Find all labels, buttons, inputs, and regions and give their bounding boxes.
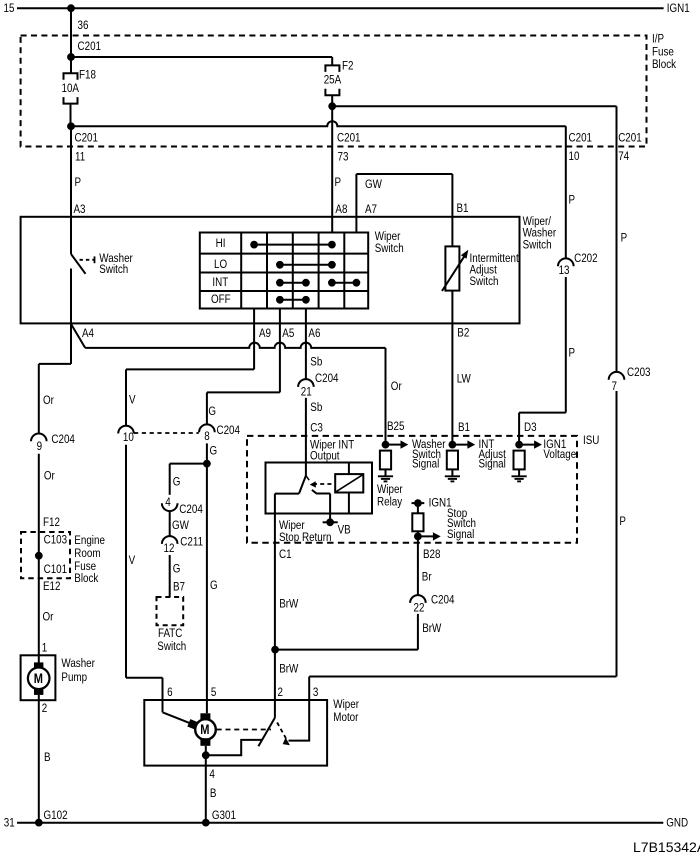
svg-text:Signal: Signal [412,458,439,471]
svg-text:C201: C201 [337,132,361,145]
wire B1 down to adjust switch [451,174,453,246]
svg-text:A8: A8 [335,203,347,216]
svg-text:73: 73 [338,151,349,164]
resistor IGN1 voltage [514,451,525,470]
svg-text:L7B15342A: L7B15342A [633,839,700,855]
svg-text:BrW: BrW [279,598,299,611]
svg-text:C3: C3 [310,422,323,435]
wire G to C204-4 [169,464,171,495]
svg-text:FATC: FATC [158,627,182,640]
svg-text:C201: C201 [77,40,101,53]
connector C204 pin 8 [199,424,215,432]
svg-text:M: M [34,671,43,686]
svg-text:Washer: Washer [61,657,95,670]
svg-text:C103: C103 [44,534,68,547]
pin3 wire to contact [289,700,310,741]
connector C204 pin 22 [410,595,426,603]
resistor washer switch signal [380,451,391,470]
svg-text:21: 21 [301,386,312,399]
svg-text:IGN1: IGN1 [667,2,690,15]
engine room fuse block boundary [21,532,70,578]
wiper relay K1 box [266,463,373,514]
wire A3 into washer switch [70,217,72,254]
svg-text:P: P [619,515,626,528]
svg-text:VB: VB [338,524,351,537]
svg-text:B2: B2 [457,327,469,340]
junction stop switch signal [414,533,422,541]
svg-text:Block: Block [652,58,677,71]
wiper/washer switch box [21,217,520,324]
svg-text:12: 12 [163,542,174,555]
svg-text:B1: B1 [457,202,469,215]
svg-text:8: 8 [204,430,209,443]
alternate lever arrowhead [283,737,290,745]
VB tick [323,521,338,523]
signal arrow stop switch [418,535,434,537]
svg-text:Relay: Relay [377,496,403,509]
svg-text:B25: B25 [387,420,405,433]
svg-text:F12: F12 [43,516,60,529]
svg-text:C203: C203 [627,366,651,379]
wire GW to C211-12 [169,511,171,536]
wire P to A8 [331,106,333,232]
wire V to C204-10 [125,369,127,425]
svg-text:C204: C204 [315,372,339,385]
svg-text:4: 4 [165,496,170,509]
svg-text:Fuse: Fuse [74,560,96,573]
connector C211 pin 12 [162,536,178,544]
wire 4 / B to G301 [205,755,207,822]
wire Sb / C3 to wiper relay [305,398,307,476]
wire A9 jog left [126,368,254,370]
wire A5 jog left [207,391,280,393]
svg-text:Switch: Switch [157,640,186,653]
svg-text:P: P [74,176,81,189]
svg-text:Block: Block [74,572,99,585]
svg-text:5: 5 [211,686,216,699]
svg-text:Pump: Pump [61,671,87,684]
svg-text:A7: A7 [365,203,377,216]
coil feed bottom [348,493,350,514]
wire C1 / BrW to motor pin 2 [274,514,276,701]
wire into motor pin 6 [162,678,164,713]
svg-text:P: P [335,176,342,189]
svg-text:F18: F18 [79,69,96,82]
ground washer switch signal [385,469,387,475]
svg-text:G301: G301 [212,809,236,822]
svg-text:2: 2 [277,686,282,699]
connector C204 pin 4 [162,503,178,511]
wire BrW down [417,614,419,650]
svg-text:Sb: Sb [310,356,322,369]
relay coil [335,474,363,492]
svg-text:22: 22 [414,602,425,615]
svg-text:A4: A4 [82,327,94,340]
svg-text:C204: C204 [216,424,240,437]
relay actuating link [313,483,335,485]
wire A7 up [355,174,357,233]
wire C201-10 down to C202 [565,126,567,258]
wire P to A3 [70,126,72,217]
wire jog to D3 [519,412,566,414]
wire C201 feed to F2 [71,56,332,58]
svg-text:BrW: BrW [422,622,442,635]
svg-text:B1: B1 [458,421,470,434]
svg-text:INT: INT [212,276,228,289]
svg-text:F2: F2 [342,60,353,73]
svg-text:I/P: I/P [652,33,664,46]
wire A5 down [279,309,281,393]
wire Or / B25 down to ISU [385,348,387,445]
svg-text:Wiper: Wiper [333,698,359,711]
LO contact bar [280,264,332,266]
wire D3 into ISU [518,413,520,445]
wire Or down to washer pump [38,454,40,663]
svg-text:Signal: Signal [479,458,506,471]
svg-text:Output: Output [310,450,340,463]
relay coil diagonal [336,475,363,492]
adjust switch arrowhead [461,250,468,259]
wire to resistor [417,503,419,513]
svg-text:15: 15 [4,2,15,15]
motor pin6 diagonal [163,712,193,724]
wire BrW to motor pin 2 wire [275,649,418,651]
washer pump M1 box [21,655,56,700]
fuse F2 25A [325,65,339,72]
wire A4 branch diagonal [71,324,85,348]
ground INT adjust signal [451,469,453,475]
svg-text:36: 36 [77,19,88,32]
svg-text:13: 13 [559,264,570,277]
wire B to G102 [38,695,40,823]
svg-text:LW: LW [457,373,472,386]
wire C201-74 down to C203 [616,106,618,372]
svg-text:Fuse: Fuse [652,46,674,59]
svg-text:GW: GW [365,178,383,191]
ISU boundary [247,436,577,543]
intermittent adjust switch R1 body [445,246,459,290]
wire to junction [417,531,419,536]
svg-text:Motor: Motor [333,711,358,724]
junction washer switch signal [382,441,390,449]
wire into motor pin 3 [308,677,310,701]
motor to park contact [205,746,207,755]
svg-text:Or: Or [391,380,402,393]
wire A6 down [305,309,307,379]
svg-text:C201: C201 [568,132,592,145]
svg-text:A3: A3 [73,203,85,216]
svg-text:V: V [129,394,136,407]
svg-text:HI: HI [216,237,226,250]
park switch fixed contact wire [206,740,263,755]
svg-text:C211: C211 [180,536,203,549]
svg-text:C201: C201 [74,132,98,145]
wire Or to C204-9 [38,364,40,434]
junction INT adjust signal [449,441,457,449]
wire A9 down [253,309,255,370]
svg-text:Engine: Engine [74,534,105,547]
relay NO contact [312,490,330,494]
svg-text:Voltage: Voltage [543,448,576,461]
wire G down to motor pin 5 [206,443,208,700]
svg-text:2: 2 [42,702,47,715]
wire P jog to motor pin 3 [309,676,616,678]
svg-text:25A: 25A [324,74,342,87]
svg-text:C204: C204 [51,433,75,446]
wire washer switch to A4 [70,269,72,323]
wire IGN1 top rail (net 15) [17,7,664,9]
svg-text:G: G [173,476,181,489]
wire into F18 [70,57,72,73]
svg-text:1: 1 [42,642,47,655]
wire pin5 to motor [206,700,208,713]
svg-text:GW: GW [172,519,190,532]
connector C204 pin 10 [118,426,134,434]
ground G102 [35,819,43,827]
svg-text:B28: B28 [423,548,441,561]
connector C204 pin 21 [298,379,314,387]
wire G to FATC switch [169,555,171,597]
svg-text:E12: E12 [43,580,61,593]
fuse F18 10A [64,73,78,80]
I/P fuse block boundary [21,36,647,147]
wire G to C204-8 [206,392,208,424]
signal arrow washer switch signal [386,444,402,446]
svg-text:BrW: BrW [279,663,299,676]
adjust switch arrow [442,257,464,291]
signal arrow IGN1 voltage [519,444,535,446]
junction below F2 [328,102,336,110]
svg-text:C201: C201 [618,132,642,145]
svg-text:10: 10 [123,431,134,444]
connector C204 pin 9 [31,434,47,442]
wire F2 to junction [331,95,333,106]
svg-text:Or: Or [44,470,55,483]
wire P down [565,277,567,413]
svg-text:G: G [210,579,218,592]
svg-text:GND: GND [666,817,688,830]
motor park switch lever [258,718,275,747]
svg-text:M: M [200,722,209,737]
wire A4 jog left [39,363,71,365]
svg-text:G102: G102 [44,809,68,822]
svg-text:10: 10 [568,150,579,163]
junction on IGN1 rail [67,4,75,12]
IGN1 tick [412,502,425,504]
junction C201 feed [67,53,75,61]
svg-text:31: 31 [4,817,15,830]
OFF contact bar [280,299,306,301]
resistor stop switch signal [412,513,423,531]
junction VB [326,518,334,526]
svg-text:Room: Room [74,547,100,560]
svg-text:10A: 10A [62,82,80,95]
svg-text:LO: LO [214,258,227,271]
junction motor return [202,751,210,759]
svg-text:OFF: OFF [211,293,231,306]
wire V jog right [126,677,163,679]
svg-text:11: 11 [75,151,85,164]
svg-text:C101: C101 [44,563,68,576]
wire B28 down [417,536,419,595]
svg-text:P: P [568,194,575,207]
svg-text:Wiper: Wiper [377,483,403,496]
svg-text:Switch: Switch [469,275,498,288]
coil feed top [348,463,350,475]
junction G to FATC [203,460,211,468]
wire pin2 to lever [274,700,276,718]
relay switch lever [299,476,306,494]
wire B2 / LW / B1 to ISU [451,291,453,445]
connector C203 pin 7 [609,372,625,380]
washer switch actuating link [80,259,95,261]
motor park link [217,729,271,731]
C204 connector link [134,432,199,434]
svg-text:B: B [44,751,51,764]
svg-text:Signal: Signal [447,528,474,541]
wiper switch S2 grid [200,233,368,309]
ground G301 [202,819,210,827]
wire A4 down [70,323,72,364]
wire to VB [329,494,331,523]
svg-text:A6: A6 [308,327,320,340]
wire Or run to B25 with hops [85,343,385,348]
svg-text:A9: A9 [259,327,271,340]
connector C202 pin 13 [558,258,574,266]
wire to C201-74 [332,105,616,107]
svg-text:C204: C204 [179,503,203,516]
HI contact bar [254,244,332,246]
INT contact bar left [280,282,306,284]
svg-text:9: 9 [37,440,42,453]
motor left terminal [187,719,199,730]
ground IGN1 voltage [518,469,520,475]
svg-text:B: B [210,787,217,800]
wire into F2 [331,57,333,65]
junction IGN1 voltage [515,441,523,449]
svg-text:4: 4 [209,768,214,781]
motor symbol [200,713,210,720]
wire C201-11 run to C201-10 with hop [71,121,566,126]
junction below F18 [67,122,75,130]
junction in fuse block [35,552,43,560]
svg-text:Sb: Sb [310,401,322,414]
svg-text:A5: A5 [282,327,294,340]
resistor INT adjust signal [447,451,458,470]
wire V down to wiper motor [125,445,127,678]
svg-text:Stop Return: Stop Return [279,531,332,544]
svg-text:G: G [173,563,181,576]
relay link arrowhead [310,481,316,487]
svg-text:B7: B7 [173,581,185,594]
wire branch to FATC [170,463,207,465]
wire GW loop [356,173,452,175]
wiper motor M2 box [144,700,327,766]
relay output to C1 [274,494,276,514]
svg-text:G: G [210,445,218,458]
svg-text:3: 3 [313,686,318,699]
svg-text:P: P [621,232,628,245]
svg-text:ISU: ISU [583,434,599,447]
svg-text:Switch: Switch [523,239,552,252]
signal arrow INT adjust signal [452,444,468,446]
svg-text:G: G [208,405,216,418]
svg-text:V: V [129,554,136,567]
ground rail (net 31) [17,822,663,824]
junction BrW [271,646,279,654]
svg-text:D3: D3 [524,421,537,434]
svg-text:Or: Or [43,611,54,624]
svg-text:Or: Or [43,394,54,407]
svg-text:74: 74 [618,150,629,163]
relay common wire [275,493,299,495]
relay lever pivot notch [306,476,309,481]
park switch alternate lever [277,723,287,741]
svg-text:P: P [568,347,575,360]
wire P down right side [616,391,618,677]
washer switch SW1 lever [71,254,86,274]
INT contact bar right [332,282,357,284]
svg-text:Br: Br [422,571,432,584]
wire F18 to C201-11 [70,104,72,127]
FATC switch box [157,597,184,625]
svg-text:Switch: Switch [99,263,128,276]
wire 36 to C201 [70,8,72,57]
washer pump motor symbol [34,662,43,668]
svg-text:C204: C204 [431,594,455,607]
svg-text:Switch: Switch [375,242,404,255]
svg-text:C1: C1 [279,548,292,561]
svg-text:C202: C202 [574,252,598,265]
svg-text:6: 6 [167,686,172,699]
junction IGN1 stop switch [414,499,422,507]
